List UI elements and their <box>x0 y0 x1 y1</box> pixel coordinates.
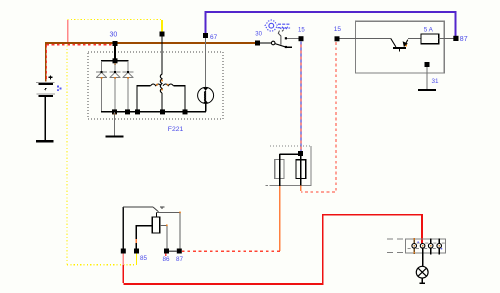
svg-text:15: 15 <box>334 26 342 33</box>
wire red relay30 down <box>122 265 124 283</box>
node relay 30 <box>121 249 126 254</box>
node rectifier top <box>113 58 118 63</box>
wire 15 to transistor <box>340 37 391 39</box>
relay K1 outline <box>122 207 124 249</box>
ground regulator <box>418 89 436 91</box>
wire pink relay30 drop <box>122 254 124 266</box>
node 15 fuse feed <box>335 36 340 41</box>
node relay 87 <box>177 249 182 254</box>
battery A <box>36 75 55 140</box>
ignition key icon <box>265 20 291 31</box>
node 30 on brown rail <box>113 41 118 46</box>
ground battery <box>36 140 54 142</box>
wire transistor to fuse <box>408 37 421 39</box>
svg-text:67: 67 <box>210 34 218 41</box>
node bus junctions <box>112 109 117 114</box>
relay coil <box>156 213 158 217</box>
pin 1 <box>413 238 415 254</box>
ground alternator <box>114 112 116 136</box>
diode D3 <box>123 61 134 112</box>
wire red-blue dashed ignition to divider <box>300 42 302 152</box>
regulator box <box>356 21 445 73</box>
node 30 switch <box>255 41 260 46</box>
wire link 86-87 <box>169 250 177 252</box>
wire pink vertical <box>67 20 69 43</box>
relay coil to 85 <box>136 226 152 249</box>
svg-text:5 A: 5 A <box>424 26 434 33</box>
wire brown 30 rail <box>46 43 258 82</box>
svg-text:F221: F221 <box>168 126 184 133</box>
svg-text:85: 85 <box>140 255 148 262</box>
transistor Q1 <box>391 38 408 51</box>
resistor block boundary <box>265 146 311 185</box>
node divider top <box>298 151 303 156</box>
node 67 <box>203 33 208 38</box>
diode D1 <box>96 61 107 112</box>
wire node30 to rectifier <box>114 43 116 61</box>
svg-text:30: 30 <box>110 32 118 39</box>
switch contact lower <box>285 46 287 48</box>
wire orange stub right <box>300 185 302 190</box>
wire 67 to rotor <box>205 38 207 88</box>
battery label mark <box>57 86 62 91</box>
svg-text:31: 31 <box>432 78 440 85</box>
wire red stripe on brown <box>47 44 114 46</box>
stator winding right coil <box>163 84 173 86</box>
switch contact upper <box>285 37 287 39</box>
wire purple bus 67-87 <box>206 12 456 36</box>
relay coil to 86 <box>160 225 167 248</box>
wire yellow 85 drop <box>136 254 138 266</box>
wire yellow-dashed bottom horizontal <box>67 264 137 266</box>
relay contact blade <box>153 207 159 212</box>
node relay 86 <box>164 249 169 254</box>
wire divider internal <box>280 154 301 186</box>
stator winding center coil <box>160 74 162 93</box>
alternator dashed box <box>88 52 223 119</box>
svg-text:87: 87 <box>176 256 184 263</box>
switch wire and pivot <box>260 42 271 44</box>
node 61 top <box>160 32 165 37</box>
wire fuse to 87 <box>439 37 454 39</box>
svg-text:15: 15 <box>298 28 305 34</box>
fuse 5A <box>421 34 439 44</box>
node relay 85 <box>134 249 139 254</box>
node 15 switch <box>299 36 304 41</box>
pin 3 <box>430 238 432 254</box>
resistor R1 <box>275 160 284 179</box>
pin 4 <box>438 238 440 254</box>
wire node61 to stator <box>161 37 163 75</box>
node 87 <box>453 36 458 41</box>
connector X1 <box>406 239 446 253</box>
stator winding left coil <box>151 84 161 86</box>
wire yellow solid drop to node 61 <box>161 20 163 32</box>
diode D2 <box>110 63 121 111</box>
svg-text:30: 30 <box>255 31 262 37</box>
wire red dashed 87 to orange <box>182 250 280 252</box>
pin 2 <box>420 244 425 249</box>
wire orange left <box>279 186 281 251</box>
wire red main to lamp feed <box>123 215 422 284</box>
svg-text:87: 87 <box>460 36 468 43</box>
stator bottom bus <box>101 111 206 113</box>
wire yellow-dashed long vertical <box>66 46 68 266</box>
relay contact to 87 <box>157 212 181 248</box>
wire yellow-dashed top horizontal <box>68 19 163 21</box>
wire 31 to ground <box>426 67 428 89</box>
switch lever <box>275 44 285 47</box>
svg-text:86: 86 <box>163 256 171 263</box>
rotor field winding <box>198 87 214 103</box>
lamp H1 <box>416 266 428 278</box>
node 31 regulator <box>425 62 430 67</box>
wire red dashed 15 down <box>301 42 336 192</box>
winding junction dots <box>156 80 168 91</box>
rectifier top bus <box>101 60 129 62</box>
resistor R2 <box>296 160 306 179</box>
pin marks <box>408 243 445 249</box>
